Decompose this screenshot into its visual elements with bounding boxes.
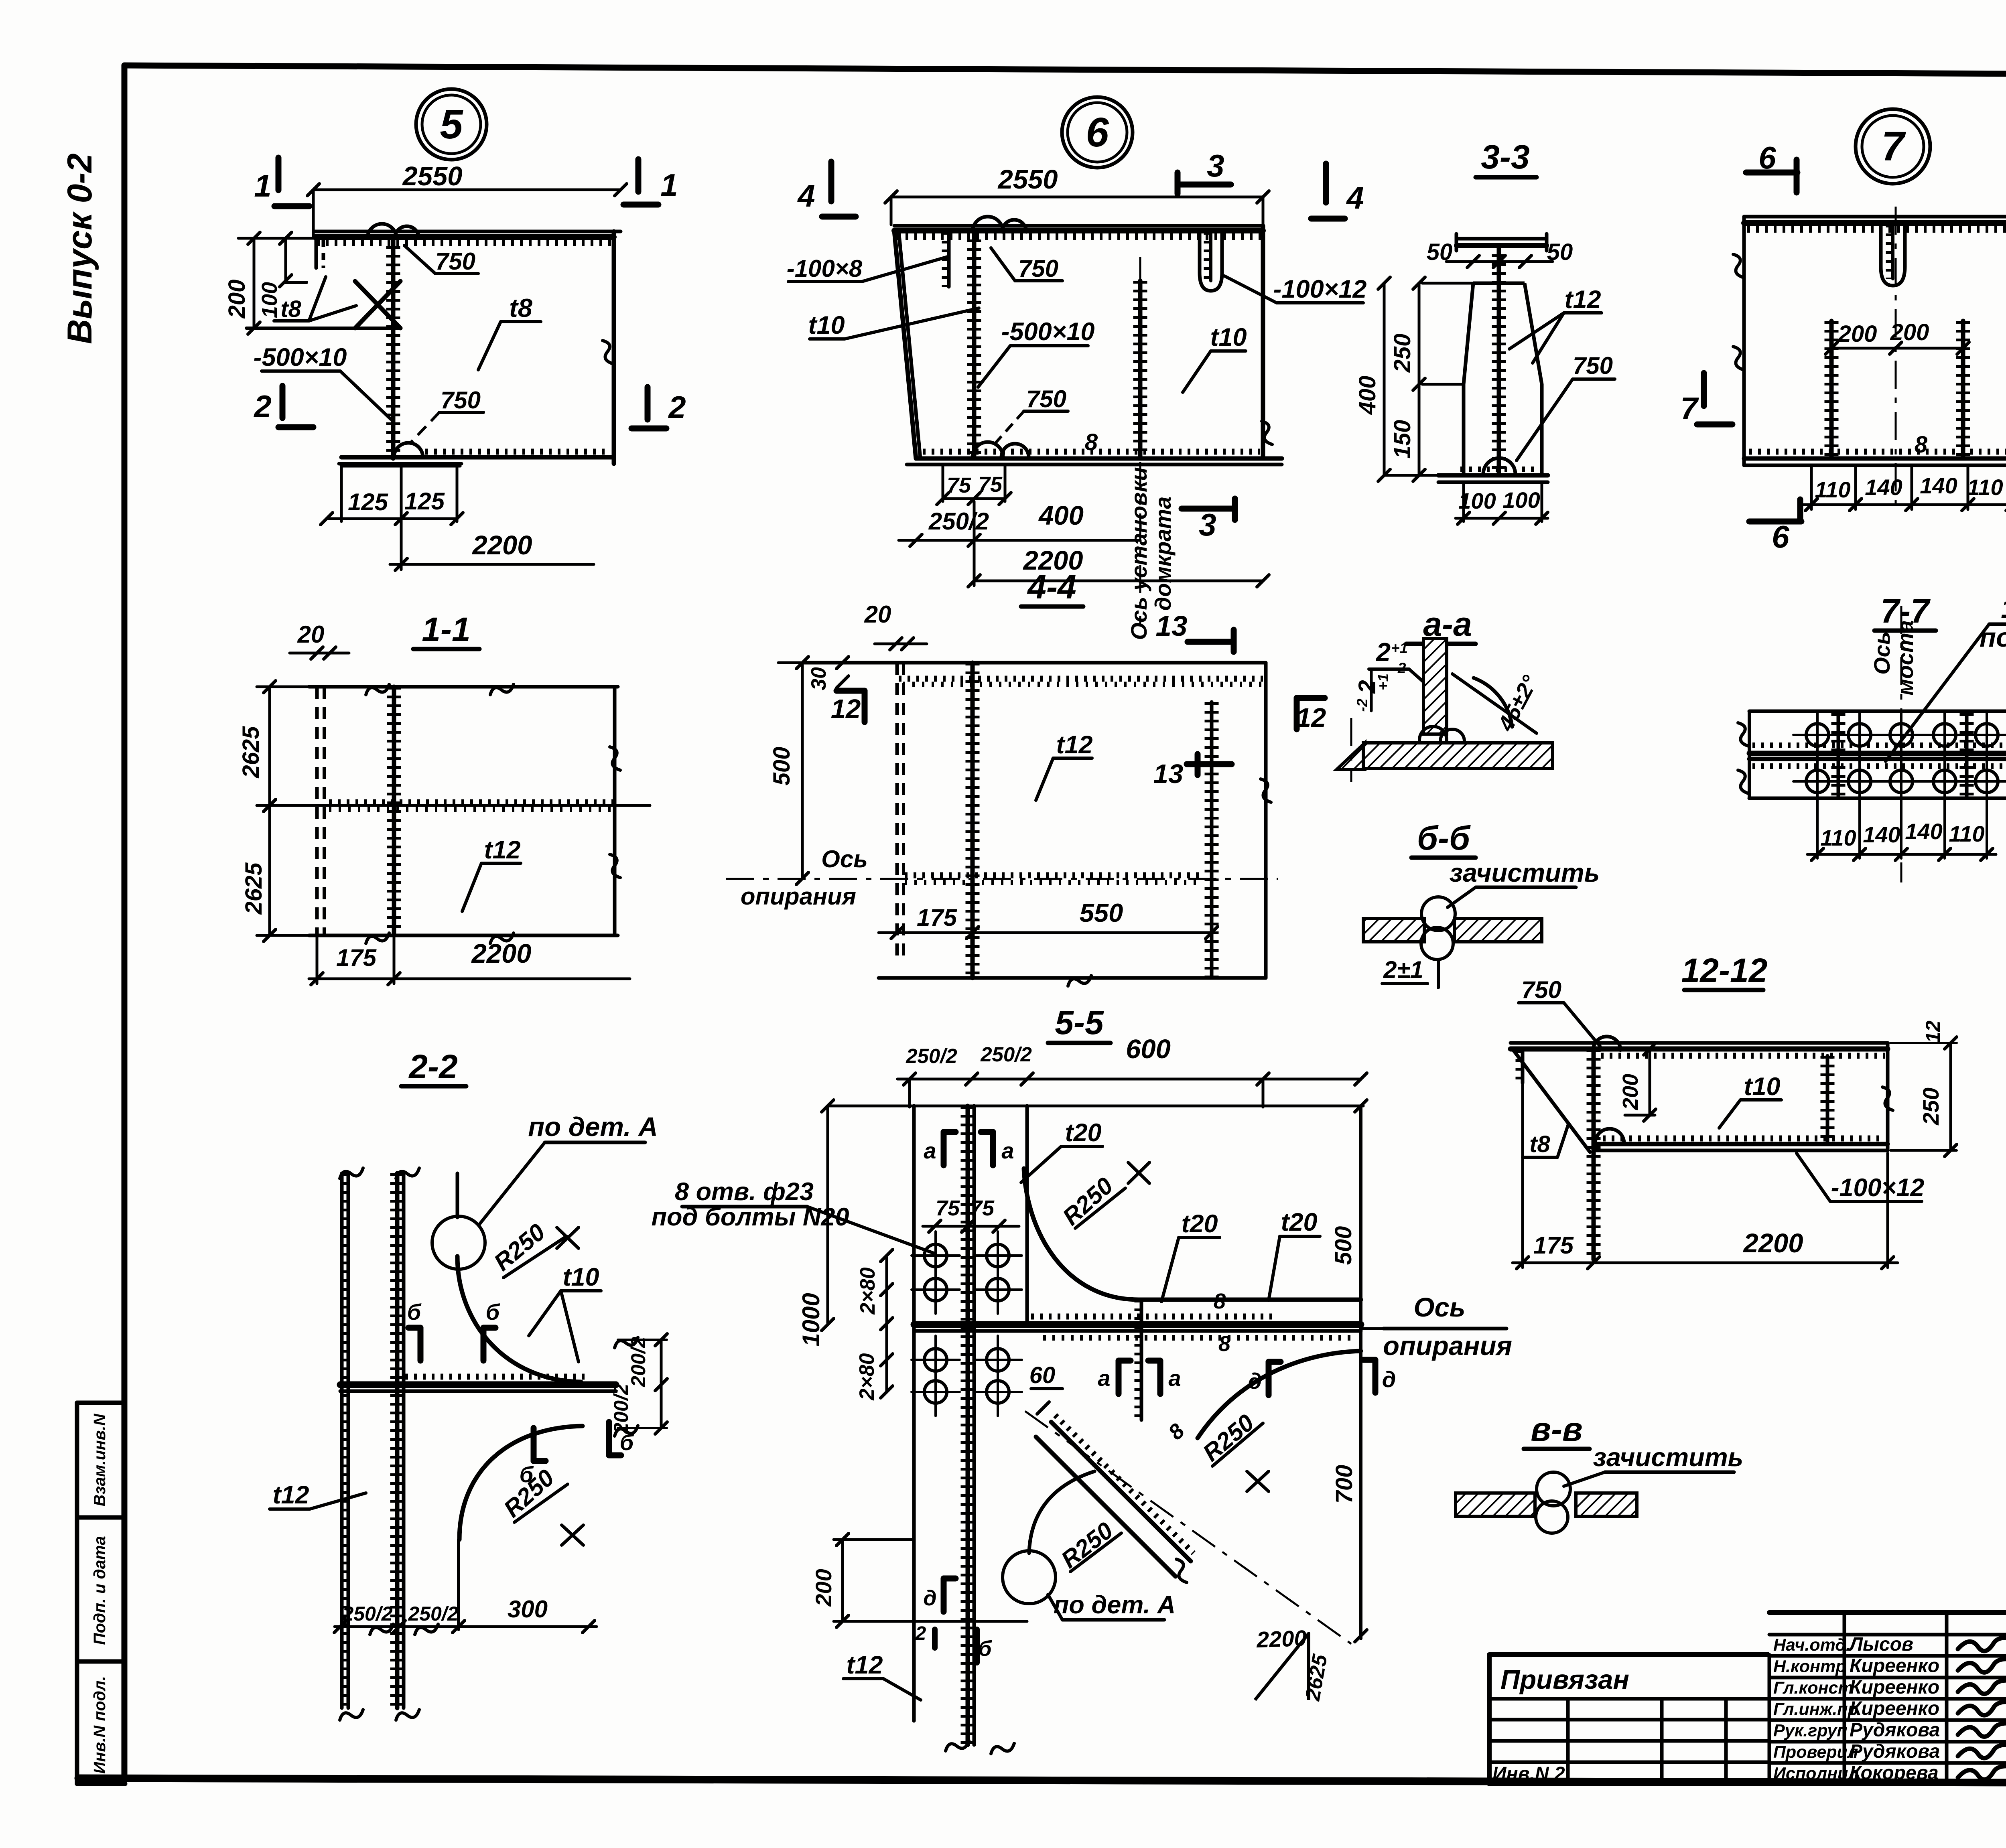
node 7: section mark 6 bottom [1797, 499, 1803, 521]
svg-text:250: 250 [1389, 334, 1415, 373]
svg-text:75: 75 [970, 1196, 995, 1220]
section 2-2: right dims 200/2 200/2 [660, 1340, 663, 1428]
svg-text:2×80: 2×80 [855, 1353, 879, 1400]
svg-text:13: 13 [1153, 759, 1184, 789]
svg-text:+1: +1 [1375, 673, 1391, 690]
node 5: section mark 1 right [636, 159, 642, 192]
svg-text:250/2: 250/2 [906, 1045, 957, 1067]
section 12-12: slanted gusset edge t8 [1513, 1050, 1590, 1152]
svg-text:под болты N20: под болты N20 [652, 1203, 849, 1231]
svg-text:125: 125 [404, 488, 445, 515]
svg-text:750: 750 [1573, 352, 1613, 379]
svg-text:4: 4 [1346, 180, 1364, 215]
svg-text:зачистить: зачистить [1593, 1442, 1743, 1472]
title block: Привязан box [1489, 1655, 1769, 1699]
section 12-12: weld arc at web bottom [1595, 1129, 1624, 1143]
svg-text:2-2: 2-2 [408, 1048, 457, 1085]
svg-text:опирания: опирания [1383, 1331, 1512, 1361]
section 4-4: dims 175 550 [879, 931, 1212, 934]
node 7: dims 110 140 140 110 [1810, 465, 1813, 509]
svg-text:д: д [1382, 1367, 1396, 1392]
svg-text:300: 300 [508, 1596, 548, 1623]
node 6: jack axis stiffener serrated [1138, 281, 1143, 458]
svg-text:5: 5 [440, 101, 463, 147]
section 12-12: mid stiffener serrated [1826, 1056, 1829, 1143]
svg-text:по дет. А: по дет. А [1054, 1591, 1176, 1619]
svg-text:t20: t20 [1065, 1119, 1101, 1147]
svg-text:Ось: Ось [1413, 1292, 1465, 1323]
svg-text:Ось установки: Ось установки [1126, 467, 1151, 640]
node 7: section mark 7 left [1701, 373, 1707, 406]
svg-text:8: 8 [1085, 429, 1098, 455]
svg-text:250/2: 250/2 [342, 1603, 392, 1625]
section 3-3: dims 100 100 [1462, 483, 1465, 521]
svg-text:-100×12: -100×12 [1273, 275, 1367, 303]
node 6: section mark 3 bottom [1232, 499, 1238, 520]
node 6: small connector plate -100x8 [947, 232, 951, 287]
node 7: detail circle with number 7 [1856, 109, 1930, 184]
section 3-3: left dims 400 250 150 [1422, 282, 1473, 285]
svg-text:60: 60 [1029, 1362, 1056, 1388]
svg-text:6: 6 [1086, 109, 1109, 155]
svg-text:200: 200 [1838, 321, 1877, 347]
svg-text:175: 175 [336, 944, 377, 971]
svg-text:75: 75 [947, 473, 971, 497]
section 5-5: dim 200 left lower [841, 1540, 844, 1621]
svg-text:140: 140 [1905, 819, 1942, 844]
svg-text:50: 50 [1547, 239, 1573, 265]
node 5: section mark 1 left [276, 158, 282, 190]
svg-text:t12: t12 [484, 836, 520, 864]
svg-text:Проверил: Проверил [1773, 1743, 1858, 1762]
section 5-5: top dims 250/2 250/2 600 [897, 1078, 1361, 1081]
section 1-1: top edge [309, 685, 618, 689]
section 7-7: bottom edge [1749, 797, 2006, 800]
left stamp column [75, 1403, 79, 1784]
svg-text:50: 50 [1427, 239, 1453, 265]
node 7: left break edge [1742, 217, 1746, 465]
svg-text:12: 12 [831, 694, 861, 724]
section 1-1: bottom edge [309, 934, 618, 937]
section 7-7: dims 110 140 140 110 bottom [1816, 800, 1819, 858]
svg-text:8 отв. ф23: 8 отв. ф23 [675, 1178, 814, 1206]
section 3-3: web serrated [1497, 245, 1501, 475]
section 4-4: top edge line [804, 661, 1266, 665]
section 2-2: detail circle A [432, 1216, 485, 1269]
svg-text:3: 3 [1199, 507, 1216, 542]
svg-text:6: 6 [1758, 140, 1776, 175]
svg-text:t20: t20 [1281, 1208, 1317, 1236]
svg-text:10 отв. ф27: 10 отв. ф27 [2001, 594, 2006, 624]
svg-text:+1: +1 [1391, 640, 1408, 656]
svg-text:110: 110 [1820, 825, 1856, 850]
svg-text:6: 6 [1772, 519, 1789, 554]
svg-text:Нач.отд.: Нач.отд. [1773, 1635, 1851, 1655]
section 7-7: bolts bottom row [1806, 770, 1829, 793]
svg-text:100: 100 [258, 282, 282, 318]
section 2-2: section marks b lower [531, 1428, 537, 1461]
svg-text:Исполнил: Исполнил [1773, 1764, 1859, 1783]
node 6: section mark 4 left [828, 162, 834, 201]
svg-text:175: 175 [1533, 1232, 1574, 1259]
svg-text:Н.контр: Н.контр [1773, 1657, 1846, 1676]
node 5: weld arc at web bottom [394, 443, 423, 457]
section 4-4: right stiffener serrated [1210, 702, 1214, 978]
svg-text:250/2: 250/2 [408, 1603, 458, 1625]
section 12-12: bottom dims 175 2200 [1521, 1085, 1524, 1268]
section 5-5: bearing flange thick line [1031, 1314, 1276, 1320]
svg-text:домкрата: домкрата [1150, 497, 1176, 611]
section a-a: vertical plate hatched [1423, 639, 1447, 734]
svg-text:140: 140 [1920, 473, 1957, 498]
node 6: section mark 4 right [1323, 164, 1329, 203]
section 12-12: web serrated long [1592, 1049, 1596, 1260]
svg-text:-2: -2 [1354, 698, 1370, 712]
svg-text:500: 500 [1330, 1226, 1356, 1265]
section 12-12: top flange [1511, 1041, 1888, 1045]
svg-text:2×80: 2×80 [856, 1267, 879, 1314]
node 7: top flange [1744, 215, 2006, 219]
section b-b: plate right hatched [1454, 919, 1542, 942]
svg-text:250/2: 250/2 [928, 508, 989, 535]
svg-text:б: б [978, 1637, 992, 1661]
node 6: slotted connector -100x12 [1200, 231, 1222, 291]
svg-text:Рудякова: Рудякова [1850, 1741, 1940, 1762]
section 5-5: fillet curve R250 top [1024, 1168, 1139, 1300]
title block: left grid [1489, 1697, 1769, 1701]
svg-text:Рудякова: Рудякова [1850, 1720, 1940, 1741]
svg-text:2625: 2625 [241, 862, 267, 915]
svg-text:12: 12 [1296, 703, 1326, 733]
svg-text:250/2: 250/2 [980, 1043, 1032, 1066]
node 6: detail circle with number 6 [1062, 97, 1133, 168]
section 12-12: left end plate serrated [1521, 1050, 1525, 1083]
section 5-5: column flange left [912, 1106, 916, 1721]
section 3-3: trapezoid body [1473, 282, 1525, 285]
node 5: left end plate [315, 237, 318, 268]
section v-v: weld circles [1537, 1472, 1570, 1506]
svg-text:t10: t10 [562, 1263, 599, 1291]
section 4-4: section mark 12 left [862, 691, 868, 722]
section 3-3: dim 50 50 [1446, 260, 1553, 263]
node 6: section mark 3 top [1175, 172, 1181, 194]
node 6: dim 2200 [973, 501, 976, 586]
svg-text:t10: t10 [1744, 1073, 1780, 1101]
svg-text:2: 2 [668, 389, 686, 425]
svg-text:20: 20 [297, 621, 325, 648]
svg-text:750: 750 [1521, 976, 1561, 1003]
node 6: weld arcs web top [973, 217, 1003, 232]
node 5: stiffener cross [355, 281, 400, 328]
section a-a: weld circles [1419, 726, 1447, 754]
section 5-5: bolt holes [924, 1244, 947, 1267]
node 7: section mark 6 top [1746, 170, 1797, 176]
node 7: web stub right [1961, 321, 1965, 458]
svg-text:750: 750 [441, 387, 481, 414]
svg-text:20: 20 [864, 601, 891, 628]
node 5: right edge of web plate [612, 231, 616, 464]
section 5-5: column web serrated [966, 1106, 970, 1745]
svg-text:7: 7 [1881, 123, 1906, 169]
node 7: web stub left [1829, 321, 1834, 458]
section 4-4: section mark 12 right [1294, 698, 1300, 729]
svg-text:t10: t10 [808, 311, 845, 339]
svg-text:750: 750 [435, 248, 475, 275]
node 6: web -500x10 of node 6 [972, 231, 977, 458]
svg-text:2: 2 [915, 1623, 926, 1644]
svg-text:а: а [1168, 1365, 1181, 1391]
svg-text:зачистить: зачистить [1450, 858, 1600, 887]
node 6: weld arcs web bottom [973, 442, 1003, 457]
svg-text:100: 100 [1458, 488, 1496, 513]
section 2-2: vertical below curve [457, 1540, 460, 1629]
section 5-5: fillet curve R250 lower right [1198, 1351, 1361, 1438]
section 5-5: right edge vertical [1359, 1106, 1362, 1639]
section 7-7: top edge [1749, 710, 2006, 713]
svg-text:250: 250 [1918, 1087, 1943, 1125]
section 4-4: left flange dashed [895, 663, 899, 963]
svg-text:7: 7 [1680, 391, 1699, 426]
svg-text:Подп. и дата: Подп. и дата [90, 1536, 109, 1645]
node 6: dim 250/2 and 400 [899, 539, 1140, 542]
svg-text:Киреенко: Киреенко [1850, 1698, 1939, 1719]
svg-text:Выпуск 0-2: Выпуск 0-2 [61, 153, 99, 344]
node 7: mast axis centre line [1895, 207, 1897, 509]
svg-text:2: 2 [1375, 637, 1391, 667]
node 5: dims 125 125 [340, 464, 343, 521]
svg-text:t20: t20 [1181, 1210, 1218, 1238]
node 5: detail circle with number 5 [416, 89, 487, 160]
node 7: dims 200 200 [1831, 347, 1963, 350]
section 4-4: right break edge [1264, 663, 1268, 978]
section 4-4: bottom edge [879, 976, 1266, 980]
svg-text:4: 4 [797, 178, 815, 213]
svg-text:30: 30 [807, 667, 830, 690]
section 3-3: top plate [1456, 237, 1547, 241]
section 12-12: weld arc top of web [1593, 1037, 1620, 1050]
section b-b: weld circles [1421, 897, 1455, 931]
svg-text:Гл.конст: Гл.конст [1773, 1678, 1854, 1698]
svg-text:Ось: Ось [821, 846, 868, 872]
svg-text:t8: t8 [280, 296, 301, 322]
node 5: bottom flange [425, 449, 610, 455]
section 1-1: mid weld seam [257, 804, 650, 807]
svg-text:200: 200 [1618, 1074, 1643, 1110]
svg-text:5-5: 5-5 [1055, 1004, 1104, 1041]
section 4-4: hatched wedge symbol [1337, 743, 1365, 769]
svg-text:140: 140 [1863, 822, 1900, 847]
svg-text:13: 13 [1156, 611, 1188, 642]
svg-text:-500×10: -500×10 [254, 343, 347, 371]
svg-text:1: 1 [660, 167, 678, 203]
svg-text:2550: 2550 [402, 161, 462, 191]
svg-text:110: 110 [1967, 475, 2003, 500]
svg-text:600: 600 [1126, 1034, 1171, 1064]
section 1-1: right break edge [613, 687, 617, 935]
section 7-7: mast axis line [1900, 606, 1902, 882]
svg-text:125: 125 [348, 489, 389, 515]
section 1-1: bottom dims 175 2200 [316, 935, 319, 984]
svg-text:110: 110 [1949, 821, 1984, 846]
svg-text:Рук.груп: Рук.груп [1773, 1721, 1848, 1740]
svg-text:12-12: 12-12 [1681, 951, 1768, 989]
svg-text:под болты М24: под болты М24 [1980, 623, 2006, 653]
node 5: dim 200 left [253, 238, 256, 328]
section 1-1: dim 2625 top [268, 687, 271, 805]
svg-text:по дет. А: по дет. А [528, 1112, 658, 1142]
svg-text:Киреенко: Киреенко [1850, 1677, 1939, 1698]
section 5-5: slope triangle 2200 2625 [1255, 1633, 1309, 1700]
section 5-5: bearing axis thin line and label [1361, 1327, 1383, 1330]
section 2-2: section marks b upper [418, 1328, 424, 1361]
svg-text:200: 200 [224, 280, 250, 319]
node 6: top flange [894, 224, 1263, 228]
section 12-12: dim 200 [1649, 1049, 1651, 1115]
section 5-5: plate top edge line [828, 1105, 1363, 1108]
section 5-5: fillet curve lower left [1029, 1471, 1094, 1553]
section 2-2: fillet curve R250 upper [457, 1256, 581, 1382]
svg-text:200: 200 [1890, 319, 1929, 345]
svg-text:150: 150 [1389, 420, 1415, 459]
node 5: section mark 2 left [280, 386, 286, 418]
section 4-4: bearing axis line [726, 878, 1278, 880]
svg-text:в-в: в-в [1531, 1410, 1582, 1448]
section 4-4: axis weld seam [905, 872, 1200, 878]
section 2-2: fillet curve R250 lower [459, 1426, 583, 1540]
svg-text:1-1: 1-1 [422, 611, 470, 648]
svg-text:700: 700 [1331, 1465, 1357, 1504]
svg-text:t12: t12 [272, 1481, 309, 1509]
svg-text:8: 8 [1214, 1289, 1226, 1313]
section 1-1: web plate serrated [392, 687, 396, 935]
svg-text:t12: t12 [1056, 731, 1092, 759]
svg-text:б: б [407, 1299, 422, 1325]
svg-text:2550: 2550 [997, 164, 1058, 195]
svg-text:75: 75 [936, 1196, 960, 1220]
section 1-1: dim 2625 bottom [268, 805, 271, 935]
svg-text:Инв.N подл.: Инв.N подл. [90, 1676, 109, 1774]
svg-text:-100×8: -100×8 [787, 255, 863, 282]
svg-text:t12: t12 [1564, 286, 1601, 314]
svg-text:750: 750 [1018, 255, 1058, 282]
title block: signature table [1769, 1610, 2006, 1615]
section 5-5: stiffener under curve end [1140, 1300, 1143, 1420]
section 5-5: detail circle A lower [1003, 1551, 1056, 1604]
section 7-7: splice plate centre band [1752, 742, 2006, 748]
svg-text:2200: 2200 [471, 530, 532, 560]
node 6: dim 2550 top [891, 196, 1263, 199]
section 12-12: right break edge [1886, 1043, 1890, 1150]
section v-v: plate left hatched [1456, 1493, 1535, 1516]
section 12-12: bottom flange [1603, 1136, 1885, 1142]
section v-v: plate right hatched [1576, 1493, 1637, 1516]
svg-text:а: а [1098, 1365, 1110, 1391]
svg-text:д: д [923, 1586, 936, 1610]
svg-text:2625: 2625 [238, 726, 264, 779]
svg-text:t8: t8 [1529, 1131, 1550, 1157]
section 1-1: flange edge dashed left [315, 687, 319, 935]
svg-text:Гл.инж.пр: Гл.инж.пр [1773, 1700, 1858, 1719]
section 3-3: bottom flange [1438, 473, 1548, 478]
svg-text:400: 400 [1038, 501, 1084, 531]
svg-text:Лысов: Лысов [1848, 1634, 1913, 1655]
section a-a: 45 degree leader [1452, 674, 1537, 733]
svg-text:3-3: 3-3 [1481, 138, 1529, 176]
svg-text:2200: 2200 [471, 939, 531, 969]
section 4-4: web serrated vertical [971, 663, 975, 978]
node 7: hanging slot -100x12 [1881, 223, 1905, 286]
svg-text:400: 400 [1354, 376, 1381, 415]
section 2-2: column flange verticals [340, 1173, 344, 1708]
svg-text:8: 8 [1218, 1332, 1230, 1356]
svg-text:1000: 1000 [798, 1293, 824, 1346]
section 2-2: bearing flange thick line [405, 1374, 586, 1380]
node 5: dim 2550 top [313, 189, 621, 191]
sheet frame border [124, 65, 2006, 76]
svg-text:Взам.инв.N: Взам.инв.N [90, 1413, 109, 1506]
svg-text:140: 140 [1865, 475, 1902, 500]
svg-text:110: 110 [1815, 477, 1850, 502]
svg-text:2200: 2200 [1256, 1625, 1307, 1652]
section 5-5: column flange right [1025, 1106, 1029, 1324]
section 5-5: column bottom breaks [946, 1740, 969, 1751]
svg-text:Кокорева: Кокорева [1850, 1762, 1939, 1783]
svg-text:2±1: 2±1 [1383, 956, 1423, 983]
section 5-5: dim 1000 left [826, 1106, 829, 1325]
node 6: bottom flange [923, 449, 1260, 455]
section 7-7: left break [1748, 711, 1751, 798]
svg-text:t8: t8 [509, 293, 533, 323]
node 6: jack axis centre line [1139, 257, 1141, 625]
svg-text:t12: t12 [846, 1651, 883, 1679]
svg-text:12: 12 [1922, 1020, 1944, 1043]
section 4-4: top weld seam [899, 676, 1263, 682]
section 7-7: bolts top row [1806, 724, 1829, 746]
svg-text:200/2: 200/2 [610, 1383, 632, 1434]
svg-text:-500×10: -500×10 [1001, 318, 1095, 346]
section 2-2: bottom dims 250/2 250/2 300 [335, 1625, 597, 1628]
svg-text:t10: t10 [1210, 323, 1247, 351]
node 5: weld arcs at web top [367, 224, 396, 238]
svg-text:б-б: б-б [1417, 819, 1471, 857]
section b-b: plate left hatched [1363, 919, 1424, 942]
svg-text:750: 750 [1026, 385, 1066, 412]
node 6: right edge [1261, 226, 1265, 458]
svg-text:Ось: Ось [1869, 631, 1894, 675]
svg-text:200: 200 [811, 1569, 836, 1607]
svg-text:а: а [1001, 1138, 1014, 1163]
svg-text:8: 8 [1915, 432, 1928, 458]
section 4-4: dim 500 left [801, 663, 804, 878]
node 5: section mark 2 right [645, 387, 651, 420]
svg-text:4-4: 4-4 [1027, 568, 1076, 606]
section 2-2: gusset top edge [456, 1173, 459, 1217]
section a-a: horizontal plate hatched [1363, 743, 1553, 769]
svg-text:3: 3 [1207, 148, 1224, 183]
svg-text:моста: моста [1892, 620, 1918, 696]
svg-text:опирания: опирания [741, 883, 856, 910]
section 5-5: dim 75 75 [923, 1225, 1019, 1228]
node 5: dim 2200 [400, 466, 403, 570]
svg-text:-100×12: -100×12 [1831, 1174, 1925, 1202]
svg-text:Киреенко: Киреенко [1850, 1655, 1939, 1676]
node 5: top flange [315, 230, 621, 233]
node 6: dims 75 75 [942, 465, 944, 501]
section 7-7: vertical web lines [1837, 713, 1840, 797]
svg-text:2: 2 [253, 389, 271, 424]
svg-text:100: 100 [1502, 487, 1540, 513]
svg-text:175: 175 [917, 904, 958, 931]
